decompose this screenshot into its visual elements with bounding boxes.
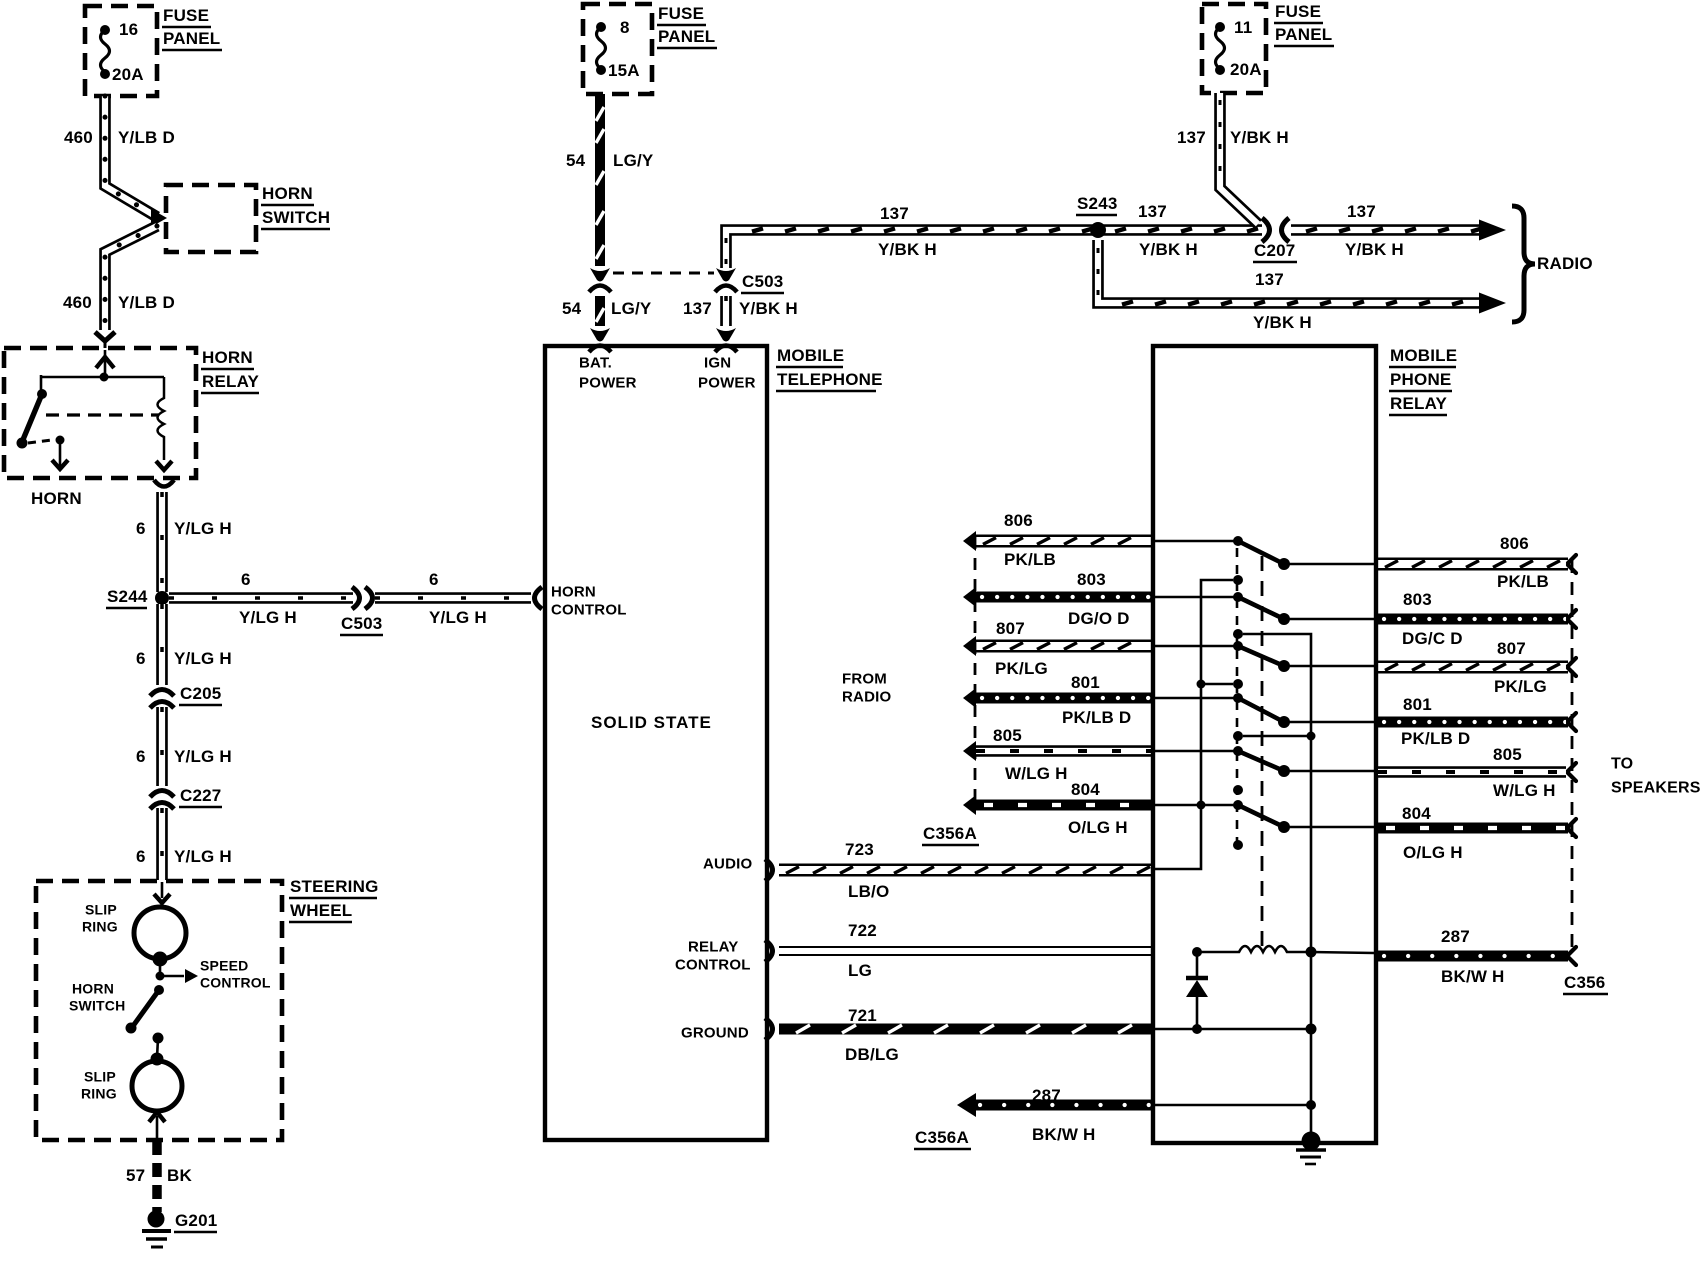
svg-text:137: 137 <box>1255 270 1284 289</box>
wire 6 Y/LG H from relay <box>156 492 168 592</box>
svg-text:Y/BK H: Y/BK H <box>1253 313 1312 332</box>
relay ground symbol <box>1302 1132 1321 1151</box>
radio brace <box>1512 206 1535 322</box>
diode <box>1196 952 1199 979</box>
svg-text:801: 801 <box>1071 673 1100 692</box>
svg-text:SPEED: SPEED <box>200 958 248 974</box>
svg-text:RADIO: RADIO <box>842 689 891 706</box>
wire 803 DG/C D to speakers <box>1378 614 1568 625</box>
mobile telephone box <box>545 346 767 1140</box>
audio bus junction on 804 wire <box>1197 801 1206 810</box>
wire 804 O/LG H from radio <box>976 800 1153 811</box>
svg-text:SLIP: SLIP <box>85 902 117 918</box>
svg-text:20A: 20A <box>1230 60 1262 79</box>
svg-text:C356A: C356A <box>923 824 977 843</box>
svg-text:Y/LG H: Y/LG H <box>239 608 297 627</box>
horn relay linkage dashed <box>46 413 158 416</box>
arrow to radio 1 <box>1479 220 1506 241</box>
svg-text:W/LG H: W/LG H <box>1005 764 1068 783</box>
fuse F16 20A <box>101 30 110 72</box>
svg-text:PK/LG: PK/LG <box>995 659 1048 678</box>
svg-text:287: 287 <box>1032 1086 1061 1105</box>
connector C503 54-wire <box>590 268 610 282</box>
svg-text:Y/BK H: Y/BK H <box>739 299 798 318</box>
svg-text:6: 6 <box>136 747 146 766</box>
svg-text:C227: C227 <box>180 786 221 805</box>
svg-text:RING: RING <box>82 919 118 935</box>
splice S244 <box>155 591 169 605</box>
svg-text:137: 137 <box>1138 202 1167 221</box>
wire 6 Y/LG H below C205 <box>156 707 168 786</box>
svg-text:BK: BK <box>167 1166 192 1185</box>
wire 137 vertical and top run <box>726 230 1262 268</box>
wire 722 LG <box>779 946 1153 956</box>
svg-text:Y/LG H: Y/LG H <box>429 608 487 627</box>
ground G201 <box>148 1211 165 1228</box>
svg-text:PK/LB: PK/LB <box>1497 572 1549 591</box>
svg-text:Y/BK H: Y/BK H <box>878 240 937 259</box>
wire 460 Y/LB D upper <box>105 96 157 217</box>
speed control tap <box>156 972 165 981</box>
fuse F8 15A <box>597 27 606 69</box>
svg-text:FROM: FROM <box>842 671 887 688</box>
svg-text:807: 807 <box>996 619 1025 638</box>
wire 54 LG/Y lower <box>595 296 605 326</box>
svg-text:20A: 20A <box>112 65 144 84</box>
svg-text:G201: G201 <box>175 1211 217 1230</box>
wire 723 LB/O <box>779 865 1153 876</box>
relay blades <box>1238 541 1284 564</box>
wire 460 Y/LB D return <box>105 226 157 330</box>
audio bus stub to contact 3 <box>1201 683 1233 686</box>
connector C356A dashed line <box>974 537 977 808</box>
fuse panel 2 box <box>583 4 652 94</box>
svg-text:PANEL: PANEL <box>658 27 715 46</box>
horn relay output contact <box>28 440 52 443</box>
svg-text:805: 805 <box>1493 745 1522 764</box>
svg-text:RELAY: RELAY <box>1390 394 1448 413</box>
fuse panel 3 box <box>1202 4 1266 93</box>
svg-text:TO: TO <box>1611 756 1633 773</box>
svg-text:BAT.: BAT. <box>579 355 612 372</box>
svg-text:16: 16 <box>119 20 138 39</box>
wire 804 O/LG H to speakers <box>1378 823 1568 834</box>
return bus stub contact 4 <box>1243 735 1311 738</box>
svg-text:SLIP: SLIP <box>84 1069 116 1085</box>
svg-text:807: 807 <box>1497 639 1526 658</box>
svg-text:PANEL: PANEL <box>1275 25 1332 44</box>
horn relay box <box>4 348 196 478</box>
relay 287 line <box>1155 1104 1311 1107</box>
connector C503 137-wire <box>716 268 736 282</box>
relay feed lines from radio wires <box>1155 540 1238 543</box>
svg-text:HORN: HORN <box>262 184 313 203</box>
mobile phone relay box <box>1153 346 1376 1143</box>
horn relay input wire <box>104 350 107 377</box>
svg-text:Y/BK H: Y/BK H <box>1230 128 1289 147</box>
svg-text:Y/BK H: Y/BK H <box>1139 240 1198 259</box>
svg-text:STEERING: STEERING <box>290 877 379 896</box>
wire 806 PK/LB from radio <box>976 536 1153 547</box>
svg-text:SWITCH: SWITCH <box>262 208 330 227</box>
svg-text:PK/LB D: PK/LB D <box>1062 708 1131 727</box>
svg-text:137: 137 <box>1177 128 1206 147</box>
steering wheel box <box>36 881 282 1140</box>
relay output lines to speaker wires <box>1284 563 1374 566</box>
svg-text:SWITCH: SWITCH <box>69 998 125 1014</box>
wire 6 Y/LG H to C503 <box>169 592 353 604</box>
svg-text:6: 6 <box>241 570 251 589</box>
connector C207 <box>1262 218 1270 242</box>
splice S243 <box>1090 222 1106 238</box>
connector C205 <box>150 690 174 697</box>
lower contact to slip ring 2 <box>153 1033 164 1044</box>
wire 137 between C503 and box <box>720 296 732 326</box>
wire 807 PK/LG from radio <box>976 641 1153 652</box>
wire 805 W/LG H to speakers <box>1378 766 1566 778</box>
svg-text:804: 804 <box>1402 804 1431 823</box>
ground connector <box>765 1018 773 1040</box>
wire 137 C207 to radio <box>1291 224 1480 236</box>
svg-text:137: 137 <box>683 299 712 318</box>
speaker return bus vertical line <box>1243 634 1311 1140</box>
svg-text:8: 8 <box>620 18 630 37</box>
wire 137 from fuse 11 <box>1220 93 1258 224</box>
arrow into slip ring 1 <box>161 882 164 898</box>
svg-text:C356A: C356A <box>915 1128 969 1147</box>
horn relay node <box>100 373 109 382</box>
relay ground line 721 <box>1155 1028 1311 1031</box>
relay control connector <box>765 940 773 962</box>
wire 54 entry connector <box>590 328 610 342</box>
svg-text:Y/LG H: Y/LG H <box>174 847 232 866</box>
wire 460 arrow into horn switch <box>151 209 167 227</box>
svg-text:15A: 15A <box>608 61 640 80</box>
horn relay coil <box>158 377 165 460</box>
svg-text:GROUND: GROUND <box>681 1025 749 1042</box>
wire 6 Y/LG H to telephone <box>375 592 531 604</box>
wire 801 PK/LB D to speakers <box>1378 717 1568 728</box>
svg-text:Y/LG H: Y/LG H <box>174 519 232 538</box>
svg-text:POWER: POWER <box>698 375 756 392</box>
svg-text:805: 805 <box>993 726 1022 745</box>
slip ring 2 <box>132 1061 182 1111</box>
relay stationary contacts <box>1233 575 1243 585</box>
svg-text:803: 803 <box>1403 590 1432 609</box>
svg-text:SOLID STATE: SOLID STATE <box>591 713 712 732</box>
connector C227 <box>150 791 174 798</box>
svg-text:CONTROL: CONTROL <box>200 975 271 991</box>
svg-text:MOBILE: MOBILE <box>1390 346 1457 365</box>
relay armature dashed line to coil <box>1261 556 1264 946</box>
wire 801 PK/LB D from radio <box>976 693 1153 704</box>
wire 806 PK/LB to speakers <box>1378 559 1568 570</box>
svg-text:BK/W H: BK/W H <box>1032 1125 1096 1144</box>
svg-text:O/LG H: O/LG H <box>1403 843 1463 862</box>
svg-text:Y/LG H: Y/LG H <box>174 747 232 766</box>
svg-text:PANEL: PANEL <box>163 29 220 48</box>
svg-text:DB/LG: DB/LG <box>845 1045 899 1064</box>
svg-text:RELAY: RELAY <box>688 939 738 956</box>
svg-text:804: 804 <box>1071 780 1100 799</box>
svg-text:Y/LB D: Y/LB D <box>118 293 175 312</box>
svg-text:C503: C503 <box>341 614 382 633</box>
svg-text:6: 6 <box>136 649 146 668</box>
wire 6 Y/LG H below C227 <box>156 808 168 880</box>
wire 805 W/LG H from radio <box>976 745 1153 757</box>
svg-text:C503: C503 <box>742 272 783 291</box>
svg-text:801: 801 <box>1403 695 1432 714</box>
connector C356 dashed line <box>1571 560 1574 950</box>
svg-text:LG/Y: LG/Y <box>611 299 652 318</box>
svg-text:C205: C205 <box>180 684 221 703</box>
svg-text:806: 806 <box>1004 511 1033 530</box>
svg-text:C356: C356 <box>1564 973 1605 992</box>
svg-text:PHONE: PHONE <box>1390 370 1451 389</box>
relay pivot dots <box>1233 536 1243 546</box>
svg-text:PK/LB D: PK/LB D <box>1401 729 1470 748</box>
svg-text:RELAY: RELAY <box>202 372 260 391</box>
svg-text:HORN: HORN <box>551 584 596 601</box>
svg-text:806: 806 <box>1500 534 1529 553</box>
svg-text:LB/O: LB/O <box>848 882 889 901</box>
svg-text:RING: RING <box>81 1086 117 1102</box>
svg-text:54: 54 <box>566 151 586 170</box>
svg-text:6: 6 <box>429 570 439 589</box>
wire 460 end arrow <box>95 332 115 341</box>
horn relay contact arm <box>40 375 43 391</box>
svg-text:54: 54 <box>562 299 582 318</box>
svg-text:721: 721 <box>848 1006 877 1025</box>
wire 721 DB/LG <box>779 1024 1153 1035</box>
horn control connector at box <box>535 587 543 609</box>
wire 287 BK/W H to C356 <box>1378 951 1568 962</box>
svg-text:MOBILE: MOBILE <box>777 346 844 365</box>
svg-text:Y/BK H: Y/BK H <box>1345 240 1404 259</box>
svg-text:IGN: IGN <box>704 355 731 372</box>
connector below horn relay <box>154 480 174 487</box>
svg-text:TELEPHONE: TELEPHONE <box>777 370 883 389</box>
svg-text:11: 11 <box>1234 18 1252 37</box>
wire 6 Y/LG H below S244 <box>156 604 168 685</box>
wire 137 lower to radio <box>1098 240 1480 303</box>
relay linkage dashed line 1 <box>1236 548 1239 845</box>
audio bus vertical line <box>1155 580 1233 869</box>
svg-text:722: 722 <box>848 921 877 940</box>
svg-text:PK/LB: PK/LB <box>1004 550 1056 569</box>
svg-text:HORN: HORN <box>31 489 82 508</box>
svg-text:460: 460 <box>64 128 93 147</box>
svg-text:HORN: HORN <box>72 981 114 997</box>
C503 dashed link <box>613 272 714 275</box>
connector C503 horn wire <box>352 587 360 609</box>
svg-text:FUSE: FUSE <box>1275 2 1321 21</box>
svg-text:HORN: HORN <box>202 348 253 367</box>
svg-text:460: 460 <box>63 293 92 312</box>
svg-text:RADIO: RADIO <box>1537 254 1593 273</box>
svg-text:CONTROL: CONTROL <box>675 957 751 974</box>
svg-text:LG/Y: LG/Y <box>613 151 654 170</box>
slip ring 1 lower contact <box>153 952 168 967</box>
svg-text:C207: C207 <box>1254 241 1295 260</box>
svg-text:PK/LG: PK/LG <box>1494 677 1547 696</box>
svg-text:S243: S243 <box>1077 194 1118 213</box>
svg-text:LG: LG <box>848 961 872 980</box>
audio connector <box>765 859 773 881</box>
svg-text:DG/O D: DG/O D <box>1068 609 1130 628</box>
horn switch blade in wheel <box>154 985 164 995</box>
coil output to 287 <box>1311 952 1374 953</box>
wire 803 DG/O D from radio <box>976 592 1153 603</box>
svg-text:137: 137 <box>880 204 909 223</box>
svg-text:POWER: POWER <box>579 375 637 392</box>
wire 137 entry connector <box>716 328 736 342</box>
svg-text:S244: S244 <box>107 587 148 606</box>
svg-text:Y/LB D: Y/LB D <box>118 128 175 147</box>
wire 54 LG/Y upper <box>595 94 605 266</box>
horn relay top bus <box>41 376 164 379</box>
wire 807 PK/LG to speakers <box>1378 662 1568 673</box>
fuse F11 20A <box>1216 27 1225 69</box>
slip ring 1 <box>134 907 186 959</box>
wire 287 BK/W H to C356A <box>974 1100 1153 1111</box>
relay coil <box>1197 946 1311 952</box>
arrow to radio 2 <box>1479 293 1506 314</box>
svg-text:803: 803 <box>1077 570 1106 589</box>
wire 57 BK <box>152 1141 162 1212</box>
svg-text:57: 57 <box>126 1166 145 1185</box>
svg-text:723: 723 <box>845 840 874 859</box>
horn switch box <box>166 185 256 252</box>
svg-text:137: 137 <box>1347 202 1376 221</box>
svg-text:WHEEL: WHEEL <box>290 901 352 920</box>
svg-text:FUSE: FUSE <box>163 6 209 25</box>
svg-text:287: 287 <box>1441 927 1470 946</box>
svg-text:FUSE: FUSE <box>658 4 704 23</box>
svg-text:BK/W H: BK/W H <box>1441 967 1505 986</box>
svg-text:CONTROL: CONTROL <box>551 602 627 619</box>
svg-text:Y/LG H: Y/LG H <box>174 649 232 668</box>
fuse panel 1 box <box>85 6 157 96</box>
svg-text:AUDIO: AUDIO <box>703 856 752 873</box>
svg-text:6: 6 <box>136 847 146 866</box>
svg-text:SPEAKERS: SPEAKERS <box>1611 780 1701 797</box>
arrow up into slip ring 2 <box>156 1116 159 1140</box>
svg-text:O/LG H: O/LG H <box>1068 818 1128 837</box>
svg-text:6: 6 <box>136 519 146 538</box>
svg-text:DG/C D: DG/C D <box>1402 629 1463 648</box>
svg-text:W/LG H: W/LG H <box>1493 781 1556 800</box>
